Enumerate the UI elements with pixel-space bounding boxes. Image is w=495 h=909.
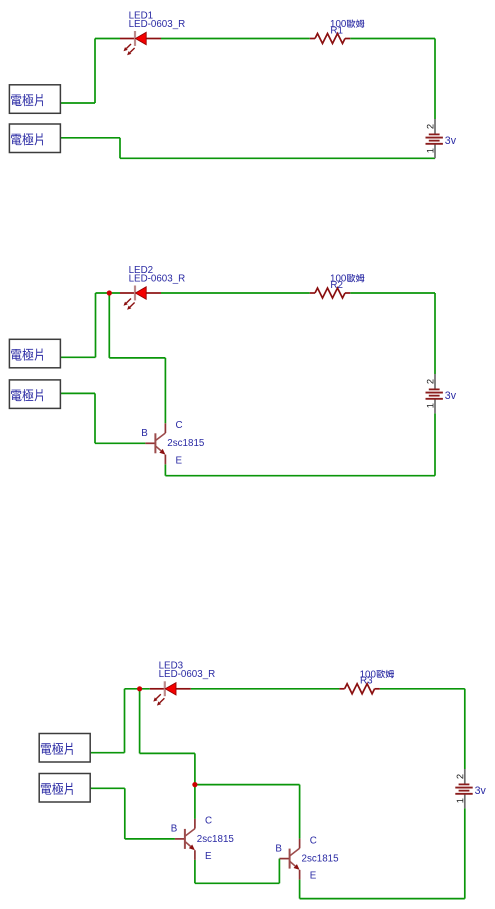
wire: electrode box 1 lead [91, 752, 125, 754]
wire: electrode box 2 lead [91, 787, 125, 789]
battery BT1 pin 1 [427, 149, 433, 153]
wire: R2 to right rail [350, 292, 435, 294]
wire: R3 to right rail [380, 688, 465, 690]
battery BT2 pin 2 [427, 379, 434, 383]
svg-text:LED-0603_R: LED-0603_R [129, 19, 186, 30]
svg-text:B: B [171, 824, 178, 835]
wire: LED2 to R2 [161, 292, 310, 294]
wire: electrode box 1 lead [61, 356, 96, 358]
svg-text:3v: 3v [445, 135, 457, 147]
svg-text:B: B [141, 428, 148, 439]
wire: left vertical to box 1 [124, 689, 126, 753]
wire: left vertical to box 1 [94, 39, 96, 104]
wire: down to Q1 collector [164, 358, 166, 423]
electrode pad box P2 (電極片) [9, 124, 60, 153]
battery BT3 (3v) [455, 769, 486, 808]
wire: R1 to right rail [350, 38, 435, 40]
svg-text:3v: 3v [445, 390, 457, 402]
wire: bottom rail [120, 157, 435, 159]
wire: down to Q2 collector [194, 753, 196, 819]
battery BT1 (3v) [426, 119, 457, 158]
wire: top-left to LED1 [95, 38, 120, 40]
svg-text:B: B [275, 843, 282, 854]
battery BT1 pin 2 [427, 124, 434, 128]
transistor Q1 (2sc1815 NPN) [141, 420, 205, 466]
wire: top-left to LED3 [125, 688, 150, 690]
wire: junction down [108, 293, 110, 358]
svg-text:R2: R2 [330, 280, 343, 291]
wire: bottom rail [165, 475, 435, 477]
resistor R1 symbol [310, 34, 350, 44]
wire: across to Q2 collector [140, 752, 195, 754]
svg-text:E: E [205, 851, 212, 862]
wire: to Q1 base [95, 442, 145, 444]
transistor Q2 (2sc1815 NPN) [171, 816, 235, 862]
wire: right rail down to BT2 [434, 293, 436, 374]
battery BT2 pin 1 [427, 404, 433, 408]
svg-text:2sc1815: 2sc1815 [167, 438, 205, 449]
svg-text:R1: R1 [330, 25, 343, 36]
svg-text:LED-0603_R: LED-0603_R [129, 273, 186, 284]
wire: junction down [139, 689, 141, 754]
electrode pad box P4 (電極片) [9, 380, 60, 409]
wire: LED1 to R1 [161, 38, 310, 40]
wire: Q2 emitter down [194, 860, 196, 883]
wire: Q1 emitter to bottom rail [164, 464, 166, 475]
wire: to Q3 base [278, 858, 280, 860]
battery BT3 pin 2 [457, 774, 464, 778]
electrode pad box P6 (電極片) [39, 774, 90, 803]
LED LED2 symbol [120, 286, 161, 310]
wire: up to Q3 base [278, 859, 280, 884]
svg-text:2sc1815: 2sc1815 [197, 834, 235, 845]
wire: down to Q3 collector [299, 785, 301, 839]
svg-text:3v: 3v [475, 785, 487, 797]
transistor Q3 (2sc1815 NPN) [275, 835, 339, 881]
resistor R2 symbol [310, 288, 350, 298]
wire: BT2 down to bottom rail [434, 413, 436, 475]
svg-text:C: C [176, 420, 183, 431]
wire: left vertical to box 1 [95, 293, 97, 357]
wire: electrode box 1 lead [61, 102, 95, 104]
svg-text:R3: R3 [360, 676, 373, 687]
wire: BT3 down to bottom rail [464, 808, 466, 898]
LED LED3 symbol [150, 681, 191, 705]
wire: electrode box 2 lead [61, 137, 120, 139]
svg-text:E: E [176, 455, 183, 466]
electrode pad box P1 (電極片) [9, 85, 60, 114]
wire: across to Q1 collector [109, 357, 165, 359]
junction at Q2/Q3 collectors [192, 782, 197, 787]
wire: to Q2 base [125, 838, 175, 840]
wire: right rail down to BT3 [464, 689, 466, 769]
wire: bottom rail [300, 898, 465, 900]
wire: Q2 emitter across [195, 882, 280, 884]
battery BT3 pin 1 [457, 799, 463, 803]
wire: LED3 to R3 [191, 688, 340, 690]
svg-text:E: E [310, 871, 317, 882]
wire: top-left to LED2 [96, 292, 121, 294]
wire: Q3 emitter to bottom rail [299, 880, 301, 899]
wire: electrode box 2 lead [61, 392, 95, 394]
wire: box2 down [94, 393, 96, 443]
wire: collector junction to Q3 collector [195, 784, 300, 786]
wire: box2 down [124, 788, 126, 839]
svg-text:LED-0603_R: LED-0603_R [159, 669, 216, 680]
resistor R3 symbol [339, 684, 379, 694]
svg-text:C: C [205, 816, 212, 827]
electrode pad box P5 (電極片) [39, 734, 90, 763]
svg-text:2sc1815: 2sc1815 [302, 854, 340, 865]
wire: right rail down to BT1 [434, 39, 436, 120]
junction on LED2 net [107, 290, 112, 295]
svg-text:C: C [310, 835, 317, 846]
wire: box2 down to bottom rail [119, 138, 121, 159]
battery BT2 (3v) [426, 374, 457, 413]
LED LED1 symbol [120, 31, 161, 55]
electrode pad box P3 (電極片) [9, 339, 60, 368]
junction on LED3 net [137, 686, 142, 691]
